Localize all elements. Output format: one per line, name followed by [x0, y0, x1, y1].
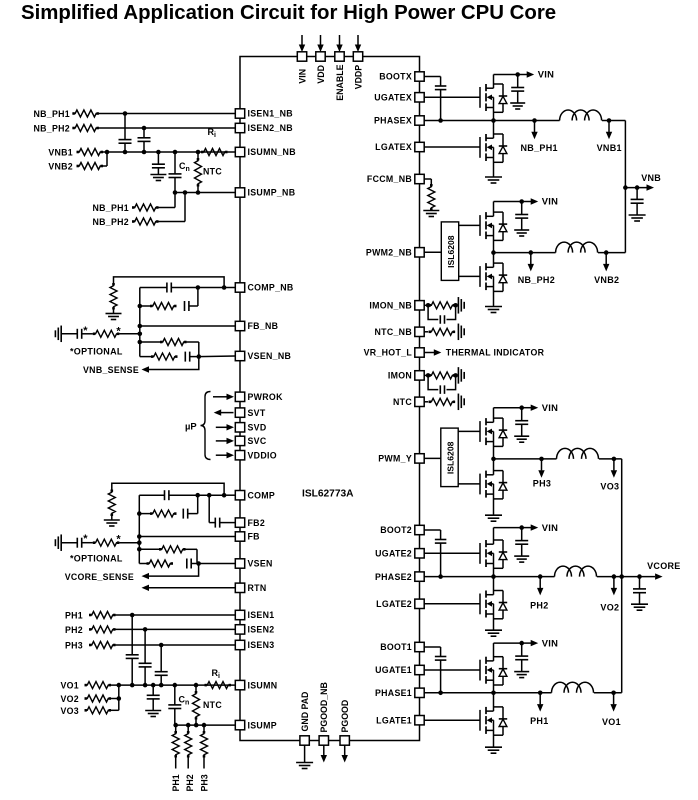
capacitor C1 (ISEN1_NB)	[119, 114, 132, 153]
svg-text:VIN: VIN	[542, 402, 559, 413]
svg-text:VSEN_NB: VSEN_NB	[248, 351, 292, 361]
pin SVC	[235, 436, 267, 446]
resistor R3 (VNB1)	[77, 149, 104, 156]
pin ISEN3	[235, 640, 274, 650]
resistor R21 (V02)	[85, 695, 112, 702]
svg-text:*: *	[83, 325, 88, 337]
svg-text:UGATE1: UGATE1	[375, 665, 412, 675]
svg-text:PH3: PH3	[533, 479, 551, 489]
junction NTC top (core)	[194, 683, 199, 688]
wire driver LGATE (NB2)	[459, 275, 480, 277]
arrow into SVD	[216, 424, 234, 430]
resistor R29 (IMON)	[429, 372, 456, 379]
capacitor Cn (NB)	[169, 152, 182, 193]
svg-text:*: *	[83, 533, 88, 545]
wire VIN rail (2)	[494, 527, 522, 529]
wire lower drain (X)	[493, 121, 495, 139]
pin GND PAD	[300, 692, 310, 763]
capacitor C6 optional (NB)	[61, 329, 93, 339]
wire COMP_NB top loop	[114, 277, 225, 288]
resistor R18 (PH2 to ISEN2)	[89, 626, 116, 633]
svg-text:PWROK: PWROK	[248, 392, 284, 402]
junction V01 join	[117, 683, 122, 688]
transistor QYH upper	[480, 418, 494, 445]
resistor R15 (VSEN branch A)	[139, 546, 197, 564]
inductor LY	[557, 448, 599, 459]
wire FB_NB row to pin	[140, 325, 236, 327]
capacitor Cn (core)	[168, 685, 181, 725]
resistor R9 optional (NB)	[93, 330, 120, 337]
junction C14 bottom	[143, 683, 148, 688]
arrow into PWROK	[213, 394, 234, 400]
pin PWM_Y	[378, 454, 424, 464]
wire FB node vertical (core)	[138, 495, 140, 563]
junction PH2 branch (core)	[186, 723, 191, 728]
pin NTC	[393, 397, 424, 407]
svg-text:PHASEX: PHASEX	[374, 116, 412, 126]
svg-text:FB: FB	[248, 532, 260, 542]
junction NB_PH2 branch	[183, 190, 188, 195]
junction C15 bottom	[159, 683, 164, 688]
svg-text:LGATE2: LGATE2	[376, 599, 412, 609]
junction bootstrap/phase (1)	[438, 691, 443, 696]
junction R29 (IMON) right	[453, 373, 458, 378]
svg-text:VO2: VO2	[60, 694, 79, 704]
wire VSEN row to pin	[199, 563, 236, 565]
capacitor C4 (COMP_NB branch 1)	[140, 283, 224, 293]
svg-text:NB_PH1: NB_PH1	[33, 109, 70, 119]
VIN decoupling capacitor (1)	[515, 643, 528, 672]
output arrow PH2	[537, 574, 543, 595]
svg-text:FCCM_NB: FCCM_NB	[367, 174, 412, 184]
ground (sideways, R27 (IMON_NB))	[458, 297, 464, 314]
resistor R6 (NB_PH2 to ISUMP_NB)	[132, 218, 159, 225]
wire ISUMP_NB row	[175, 192, 235, 194]
junction C3 top	[156, 150, 161, 155]
svg-text:VCORE_SENSE: VCORE_SENSE	[65, 572, 134, 582]
svg-text:ISUMP: ISUMP	[248, 720, 277, 730]
VIN supply tap (X)	[515, 69, 554, 80]
svg-text:NTC_NB: NTC_NB	[375, 327, 412, 337]
svg-text:SVT: SVT	[248, 408, 266, 418]
ground (sideways, R28 (NTC_NB))	[458, 324, 464, 341]
svg-text:PH3: PH3	[200, 774, 210, 791]
wire upper source to phase (Y)	[493, 431, 495, 459]
svg-text:SVC: SVC	[248, 436, 267, 446]
resistor R13 (COMP branch 2)	[139, 510, 176, 517]
bootstrap capacitor C (1)	[424, 647, 446, 693]
pin VDDIO	[235, 450, 277, 460]
svg-text:VNB_SENSE: VNB_SENSE	[83, 365, 139, 375]
transistor Q1H upper	[480, 657, 494, 684]
wire VIN rail (X)	[494, 74, 518, 76]
junction R27 (IMON_NB) left	[426, 303, 431, 308]
svg-text:VSEN: VSEN	[248, 559, 273, 569]
svg-text:FB2: FB2	[248, 518, 266, 528]
wire R7 to ground	[113, 310, 115, 314]
junction R29 (IMON) left	[426, 373, 431, 378]
IC U1 ISL62773A body outline	[240, 57, 420, 741]
wire V02 to join	[111, 698, 119, 700]
svg-text:VDD: VDD	[316, 65, 326, 84]
wire ISUMP row	[175, 724, 236, 726]
wire LGATEX to gate	[424, 146, 480, 148]
resistor R7 (COMP_NB to ground)	[110, 283, 117, 310]
pin BOOTX	[379, 72, 424, 82]
svg-text:*: *	[116, 326, 121, 338]
ground (optional core)	[55, 534, 61, 551]
wire optional row to FB node	[119, 333, 140, 335]
output arrow VO3	[611, 457, 617, 478]
junction VNB cap	[635, 185, 640, 190]
wire upper source to phase (2)	[493, 553, 495, 576]
ground (VIN cap 2)	[514, 556, 529, 562]
body diode D2H	[494, 540, 508, 568]
junction Cn bottom (core)	[173, 723, 178, 728]
transistor Q2L lower	[480, 591, 494, 618]
junction FB2 tap	[207, 493, 212, 498]
svg-text:PWM2_NB: PWM2_NB	[366, 248, 412, 258]
wire upper drain (X)	[493, 75, 495, 89]
resistor R26 (FCCM_NB pulldown)	[428, 184, 435, 211]
wire upper drain (NB2)	[493, 202, 495, 217]
wire FB_NB node vertical	[139, 288, 141, 357]
VIN decoupling capacitor (Y)	[515, 408, 528, 437]
pin ISEN1_NB	[235, 109, 293, 119]
pin RTN	[235, 583, 266, 593]
pin UGATE1	[375, 665, 424, 675]
resistor R23 (ISUMP to PH1)	[172, 725, 179, 768]
pin ISUMN_NB	[235, 147, 296, 157]
ground (R7)	[106, 314, 122, 320]
svg-text:NB_PH1: NB_PH1	[521, 143, 558, 153]
svg-text:NB_PH2: NB_PH2	[33, 124, 70, 134]
junction C16 top	[151, 683, 156, 688]
svg-text:UGATE2: UGATE2	[375, 549, 412, 559]
svg-text:VO1: VO1	[602, 717, 621, 727]
svg-text:Simplified Application Circuit: Simplified Application Circuit for High …	[21, 2, 556, 24]
resistor R17 (PH1 to ISEN1)	[89, 612, 116, 619]
wire R27 (IMON_NB) from pin	[424, 304, 428, 306]
pin IMON_NB	[369, 301, 424, 311]
svg-text:VIN: VIN	[542, 637, 559, 648]
junction COMP node	[222, 493, 227, 498]
wire ISEN2 row	[116, 628, 236, 630]
VIN supply tap (2)	[519, 522, 558, 533]
resistor R27 (IMON_NB)	[429, 302, 456, 309]
svg-text:NB_PH2: NB_PH2	[518, 275, 555, 285]
VIN decoupling capacitor (NB2)	[515, 202, 528, 231]
resistor R30 (NTC)	[429, 398, 456, 405]
wire L2 to VCORE row	[597, 576, 655, 578]
transistor Q2H upper	[480, 540, 494, 567]
wire driver LGATE (Y)	[458, 483, 480, 485]
arrow VCORE	[655, 573, 663, 579]
VIN supply tap (Y)	[519, 402, 558, 413]
resistor R16 (VSEN branch B)	[139, 560, 173, 567]
svg-text:ENABLE: ENABLE	[335, 64, 345, 100]
junction VCORE rail crossing	[619, 574, 624, 579]
resistor R24 (ISUMP to PH2)	[185, 725, 192, 768]
svg-text:ISUMN_NB: ISUMN_NB	[248, 147, 296, 157]
junction ISEN1/C13	[130, 613, 135, 618]
wire branch tie vertical	[197, 288, 199, 307]
wire V03 up join	[111, 685, 119, 710]
wire ISEN1 row	[116, 614, 236, 616]
svg-text:VDDIO: VDDIO	[248, 450, 277, 460]
wire VNB2 up to ISUMN_NB row	[103, 152, 107, 166]
bootstrap capacitor C (X)	[424, 77, 446, 121]
wire COMP_NB row to pin	[224, 287, 235, 289]
junction PH3 branch (core)	[202, 723, 207, 728]
svg-text:VR_HOT_L: VR_HOT_L	[364, 348, 413, 358]
pin PWROK	[235, 392, 283, 402]
svg-text:BOOT1: BOOT1	[380, 642, 412, 652]
svg-text:ISL6208: ISL6208	[446, 235, 456, 268]
ground (lower FET 1)	[485, 747, 502, 753]
pin ENABLE (top)	[335, 35, 345, 101]
wire lower source to ground (NB2)	[493, 276, 495, 306]
pin ISUMN	[235, 680, 277, 690]
wire NB_PH2 row to ISEN2_NB	[99, 127, 235, 129]
junction NB_PH1/C1	[123, 111, 128, 116]
svg-text:PHASE1: PHASE1	[375, 688, 412, 698]
body diode D2L	[494, 591, 508, 619]
resistor R2 (NB_PH2 to ISEN2_NB)	[72, 125, 99, 132]
pin PHASEX	[374, 116, 424, 126]
arrow VR_HOT_L to thermal indicator	[434, 349, 442, 355]
pin SVT	[235, 408, 266, 418]
junction Cn bottom	[173, 190, 178, 195]
wire upper drain (Y)	[493, 408, 495, 423]
ground (lower FET 2)	[485, 630, 502, 636]
wire NB_PH1 row to ISEN1_NB	[99, 113, 235, 115]
resistor R8 (COMP_NB branch 2)	[140, 303, 177, 310]
svg-text:PH1: PH1	[65, 611, 83, 621]
ground (sideways, R29 (IMON))	[458, 367, 464, 384]
wire lower source to ground (Y)	[493, 484, 495, 515]
junction V02 join	[117, 696, 122, 701]
capacitor C10 (COMP branch 2)	[183, 509, 197, 519]
wire lower drain (2)	[493, 577, 495, 595]
wire PHASE1 row	[424, 692, 551, 694]
body diode DNB2L	[494, 263, 508, 291]
resistor R28 (NTC_NB)	[429, 328, 456, 335]
pin BOOT2	[380, 525, 424, 535]
capacitor C2 (ISEN2_NB)	[138, 128, 151, 152]
svg-text:VNB1: VNB1	[597, 143, 622, 153]
ground (VIN cap NB2)	[514, 230, 529, 236]
svg-text:COMP: COMP	[248, 490, 276, 500]
pin COMP	[235, 490, 275, 500]
svg-text:VCORE: VCORE	[647, 561, 681, 571]
svg-text:PGOOD_NB: PGOOD_NB	[319, 682, 329, 732]
wire VR_HOT_L	[424, 352, 434, 354]
junction phase node (1)	[491, 691, 496, 696]
ground (VIN cap 1)	[514, 672, 529, 678]
resistor R25 (ISUMP to PH3)	[201, 725, 208, 768]
driver U3 (Y) ISL6208 body	[441, 428, 458, 487]
pin VR_HOT_L	[364, 348, 425, 358]
svg-text:FB_NB: FB_NB	[248, 321, 279, 331]
wire ISEN3 row	[116, 644, 236, 646]
inductor LX	[560, 110, 602, 121]
svg-text:NTC: NTC	[203, 167, 222, 177]
wire VIN rail (Y)	[494, 407, 522, 409]
wire VNB rail vertical	[624, 121, 626, 253]
junction VSEN branch A	[137, 547, 142, 552]
inductor LNB2	[556, 242, 598, 253]
wire optional row to FB node (core)	[119, 542, 139, 544]
inductor L1	[552, 682, 594, 693]
junction NTC bottom (core)	[194, 723, 199, 728]
pin BOOT1	[380, 642, 424, 652]
junction FB row (core)	[137, 534, 142, 539]
junction Cn top (core)	[173, 683, 178, 688]
wire lower source to ground (2)	[493, 604, 495, 630]
VIN decoupling capacitor (2)	[515, 528, 528, 557]
wire upper drain (2)	[493, 528, 495, 545]
ground (lower FET NB2)	[485, 307, 502, 313]
wire branch tie vertical (core)	[197, 495, 199, 513]
svg-text:COMP_NB: COMP_NB	[248, 283, 294, 293]
svg-text:ISEN2_NB: ISEN2_NB	[248, 123, 293, 133]
svg-text:IMON: IMON	[388, 371, 412, 381]
ground (sideways, R30 (NTC))	[458, 394, 464, 411]
svg-text:RTN: RTN	[248, 583, 267, 593]
body diode DYH	[494, 418, 508, 446]
bootstrap capacitor C (2)	[424, 530, 446, 577]
resistor R4 (VNB2)	[77, 163, 104, 170]
resistor R12 (COMP to ground)	[108, 490, 115, 517]
pin ISEN2_NB	[235, 123, 293, 133]
output arrow VO2	[611, 574, 617, 595]
wire upper drain (1)	[493, 643, 495, 661]
output arrow PH1	[537, 691, 543, 712]
junction NB_PH2/C2	[142, 126, 147, 131]
junction VNB rail	[623, 185, 628, 190]
pin PGOOD	[340, 700, 350, 763]
pin FB_NB	[235, 321, 278, 331]
svg-text:VNB1: VNB1	[48, 148, 73, 158]
wire R29 (IMON) from pin	[424, 374, 428, 376]
pin PHASE1	[375, 688, 424, 698]
pin LGATE1	[376, 715, 424, 725]
svg-text:NTC: NTC	[203, 700, 222, 710]
ground (lower FET X)	[485, 177, 502, 183]
brace for uP signals	[201, 392, 211, 460]
wire phase row (Y)	[494, 458, 557, 460]
capacitor C17 (parallel)	[428, 305, 456, 323]
wire VSEN_NB row to pin	[199, 355, 236, 358]
svg-text:THERMAL INDICATOR: THERMAL INDICATOR	[446, 348, 545, 358]
svg-text:NTC: NTC	[393, 397, 412, 407]
svg-text:VNB: VNB	[641, 173, 661, 183]
capacitor C19 (VNB bulk)	[631, 188, 644, 215]
ground (optional NB)	[55, 326, 61, 343]
wire UGATE1 to gate	[424, 669, 480, 671]
arrow into SVC	[216, 438, 234, 444]
wire VIN rail (1)	[494, 642, 522, 644]
svg-text:NB_PH2: NB_PH2	[92, 217, 129, 227]
wire ISUMN row	[111, 684, 235, 686]
wire VCORE_SENSE tap	[148, 564, 199, 577]
body diode D1L	[494, 707, 508, 735]
svg-text:PH3: PH3	[65, 641, 83, 651]
wire COMP top loop	[112, 483, 224, 495]
pin IMON	[388, 371, 424, 381]
svg-text:*OPTIONAL: *OPTIONAL	[70, 554, 123, 564]
pin PHASE2	[375, 572, 424, 582]
arrow out of SVT	[214, 409, 234, 415]
driver U2 (NB) ISL6208 body	[441, 222, 458, 281]
svg-text:PGOOD: PGOOD	[340, 700, 350, 733]
capacitor C18 (parallel)	[428, 375, 456, 393]
junction VSEN_NB branch A	[138, 340, 143, 345]
junction C1 bottom	[123, 150, 128, 155]
resistor R19 (PH3 to ISEN3)	[89, 642, 116, 649]
junction optional row (core)	[137, 540, 142, 545]
wire R28 (NTC_NB) from pin	[424, 331, 428, 333]
output arrow PH3	[538, 457, 544, 478]
svg-text:LGATEX: LGATEX	[375, 142, 412, 152]
capacitor C5 (COMP_NB branch 2)	[185, 301, 198, 311]
thermistor NTC (core)	[193, 685, 200, 725]
junction VSEN_NB node	[197, 354, 202, 359]
junction ISEN3/C15	[159, 643, 164, 648]
svg-text:VIN: VIN	[297, 69, 307, 84]
transistor QYL lower	[480, 471, 494, 498]
wire VIN rail (NB2)	[494, 201, 522, 203]
svg-text:GND PAD: GND PAD	[300, 692, 310, 732]
pin VDDP (top)	[353, 35, 363, 89]
ground (VIN cap Y)	[514, 436, 529, 442]
wire ISUMN_NB row	[103, 151, 235, 153]
pin ISEN2	[235, 625, 274, 635]
capacitor C15 (ISEN3)	[155, 645, 168, 685]
junction FB_NB row	[138, 324, 143, 329]
junction ISEN2/C14	[143, 627, 148, 632]
pin LGATE2	[376, 599, 424, 609]
ground (GND PAD)	[296, 763, 313, 769]
junction VNB2/row	[105, 150, 110, 155]
junction phase node (Y)	[491, 457, 496, 462]
capacitor C7 (VSEN_NB branch B)	[185, 352, 199, 362]
svg-text:VIN: VIN	[542, 522, 559, 533]
wire PHASEX row	[424, 120, 559, 122]
output arrow VNB1	[606, 118, 612, 139]
capacitor C9 (FB2)	[209, 495, 235, 527]
junction FB branch2 (core)	[137, 511, 142, 516]
resistor R10 (VSEN_NB branch A)	[140, 339, 199, 357]
wire LGATE1 to gate	[424, 719, 480, 721]
wire lower source to ground (X)	[493, 147, 495, 177]
svg-text:ISUMN: ISUMN	[248, 680, 278, 690]
wire COMP row to pin	[224, 494, 235, 496]
capacitor C12 (VSEN branch B)	[187, 559, 199, 569]
junction C2 bottom	[142, 150, 147, 155]
arrow VNB_SENSE	[142, 366, 150, 372]
body diode DYL	[494, 471, 508, 499]
junction COMP_NB node	[222, 285, 227, 290]
junction VCORE cap	[637, 574, 642, 579]
pin LGATEX	[375, 142, 424, 152]
junction NTC top (NB)	[196, 150, 201, 155]
pin ISUMP	[235, 720, 277, 730]
pin UGATE2	[375, 549, 424, 559]
resistor R22 (V03)	[85, 707, 112, 714]
arrow RTN (to remote sense)	[142, 585, 150, 591]
